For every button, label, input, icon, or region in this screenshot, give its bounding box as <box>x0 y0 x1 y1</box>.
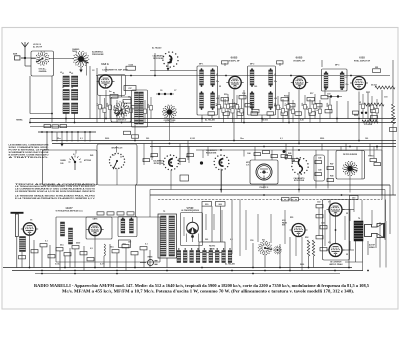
svg-text:5000: 5000 <box>76 243 80 245</box>
wire bottom v8 <box>69 248 71 268</box>
S2 arrow to ground <box>79 67 82 73</box>
wire mid m11 <box>187 141 189 161</box>
wire vertical v20 <box>324 85 326 95</box>
mid component box b14 <box>327 179 334 182</box>
bus y132 <box>38 131 96 133</box>
svg-text:C2: C2 <box>120 157 122 159</box>
svg-text:S11: S11 <box>262 240 265 242</box>
cap C33 <box>316 236 323 239</box>
value label m29 <box>230 239 233 241</box>
junction dot right <box>376 146 378 151</box>
svg-text:LA TRASFREQUENZA: LA TRASFREQUENZA <box>181 209 200 212</box>
wire bottom v36 <box>381 150 383 195</box>
wire bottom v33 <box>362 241 364 263</box>
resistor R11 volume pot <box>362 103 384 123</box>
svg-text:50.000: 50.000 <box>225 99 227 105</box>
svg-text:C40: C40 <box>60 162 63 165</box>
capacitor/resistor dropper d9 <box>216 95 221 119</box>
capacitor/resistor dropper d2 <box>107 96 112 119</box>
value label t23 <box>140 102 143 104</box>
value label m7 <box>320 138 324 140</box>
wire bottom v9 <box>83 246 85 271</box>
tiny note above S1 <box>33 43 43 48</box>
svg-text:V5: V5 <box>30 220 32 222</box>
volume box <box>119 240 131 248</box>
wire vertical v17 <box>321 60 323 67</box>
svg-text:100: 100 <box>128 242 131 244</box>
svg-text:AL TELAIO: AL TELAIO <box>205 119 215 122</box>
value label t28 <box>262 120 268 122</box>
tono label <box>368 156 374 158</box>
wire bottom v19 <box>149 250 151 268</box>
svg-text:C1: C1 <box>97 78 99 80</box>
bus mid 3 <box>150 146 396 148</box>
dial drop wires <box>171 147 222 193</box>
V1 grid cap wire <box>105 67 107 73</box>
wave-change selector S4 meter <box>60 154 92 170</box>
wire vertical v5 <box>261 115 263 123</box>
ground arrow x62 <box>60 142 63 147</box>
small box row 1 <box>97 212 104 215</box>
svg-text:AL TELAIO: AL TELAIO <box>225 263 235 266</box>
T4 box <box>132 90 148 127</box>
left-bottom C24 <box>122 245 129 248</box>
svg-text:FILTRO RUMORI: FILTRO RUMORI <box>343 154 358 156</box>
S6 label <box>117 119 127 122</box>
svg-text:INV.: INV. <box>282 225 286 227</box>
winding L21 between tubes <box>61 222 65 236</box>
wire mid m31 <box>349 175 351 193</box>
svg-text:L7: L7 <box>216 74 218 76</box>
tube V7 output <box>327 203 345 216</box>
value label t4 <box>97 78 99 80</box>
svg-text:300: 300 <box>220 106 222 109</box>
resistor R13 <box>373 67 381 72</box>
value label m15 <box>318 157 321 160</box>
value label m11 <box>150 156 153 159</box>
svg-text:POT.: POT. <box>366 92 371 94</box>
value label m4 <box>190 138 195 140</box>
resistor R6 <box>229 104 237 107</box>
calibrato dial S8a <box>163 154 179 170</box>
capacitor C5 <box>115 111 122 114</box>
tube V4 6B8 detector <box>350 77 368 90</box>
svg-text:0,1: 0,1 <box>216 103 218 106</box>
value label t26 <box>174 90 176 92</box>
svg-text:250: 250 <box>302 103 304 106</box>
mid component box b11 <box>315 161 322 164</box>
svg-text:RETE: RETE <box>148 257 154 259</box>
svg-text:0,1: 0,1 <box>230 239 233 241</box>
S1 label <box>39 69 47 73</box>
svg-text:100: 100 <box>365 138 368 140</box>
capacitor/resistor dropper d19 <box>302 95 307 119</box>
svg-text:0,1: 0,1 <box>80 138 83 140</box>
capacitor C13 <box>371 109 378 112</box>
svg-text:0,25: 0,25 <box>360 101 362 105</box>
value label t3 <box>71 87 73 89</box>
capacitor C15 <box>353 111 368 114</box>
wire bottom v21 <box>201 206 203 242</box>
svg-text:27n: 27n <box>346 84 349 86</box>
wire bottom v25 <box>252 243 254 268</box>
left-bottom C22 <box>64 253 71 256</box>
band switch S1 <box>35 51 49 65</box>
wire mid m26 <box>345 144 347 151</box>
svg-text:5m: 5m <box>109 91 112 93</box>
wire vertical v1 <box>121 76 123 98</box>
svg-text:125: 125 <box>340 89 343 91</box>
small box row 4 <box>127 212 134 215</box>
wire S2 drop <box>86 62 88 76</box>
capacitor/resistor dropper d21 <box>312 94 317 119</box>
magic eye unit box <box>181 213 203 246</box>
svg-text:25m: 25m <box>57 138 61 140</box>
cap C32 <box>320 226 327 229</box>
IF transformer T1 <box>197 66 220 115</box>
capacitor C10 <box>288 104 295 107</box>
box 250 <box>202 202 212 207</box>
wire mid m29 <box>369 144 371 157</box>
value label t16 <box>371 85 377 87</box>
value label m20 <box>45 241 48 243</box>
V6 label <box>93 218 99 221</box>
value label m33 <box>305 237 308 239</box>
svg-text:L5: L5 <box>62 87 64 89</box>
resistor R3 <box>123 100 131 104</box>
value label m35 <box>321 222 325 225</box>
V11 label block <box>282 219 288 227</box>
wire mid m23 <box>321 144 323 151</box>
tube V6 second triode <box>86 223 103 235</box>
svg-text:C6: C6 <box>160 90 162 92</box>
svg-text:L7: L7 <box>346 77 348 79</box>
svg-text:1 M: 1 M <box>229 106 231 110</box>
noise filter box <box>336 151 365 180</box>
transformer base box 2 <box>132 135 139 138</box>
value label m40 <box>225 263 235 266</box>
svg-text:250: 250 <box>352 198 355 200</box>
value label t6 <box>199 64 203 66</box>
output transformer T6 <box>354 221 363 241</box>
capacitor C11 <box>315 104 322 107</box>
value label m27 <box>163 211 165 213</box>
tube V1 label <box>101 62 129 72</box>
wire bottom v31 <box>348 200 350 268</box>
svg-text:AMPLIF. FINALI: AMPLIF. FINALI <box>329 263 343 266</box>
capacitor/resistor dropper d26 <box>374 99 379 123</box>
capacitor C12 <box>325 110 332 113</box>
loudspeaker <box>365 223 385 238</box>
value label t14 <box>366 92 371 94</box>
value label t12 <box>310 93 313 95</box>
tube V5 label <box>56 207 83 213</box>
svg-text:T6: T6 <box>358 218 360 220</box>
alimentaz label <box>92 51 104 56</box>
wire bottom v29 <box>308 256 310 268</box>
box right of S9 <box>314 155 325 181</box>
tiny label al telaio <box>152 47 162 50</box>
svg-text:50m: 50m <box>101 105 103 109</box>
svg-text:MF 1: MF 1 <box>199 64 203 66</box>
svg-text:L'ANODICO: L'ANODICO <box>117 119 127 122</box>
capacitor/resistor dropper d1 <box>101 98 106 123</box>
tube V3 6AB5 IF amp <box>291 76 308 88</box>
svg-text:VII AMPL. MF: VII AMPL. MF <box>228 60 240 63</box>
svg-text:0,5 M: 0,5 M <box>190 138 195 140</box>
calibration trimmer dial S3 <box>162 51 178 67</box>
value label t7 <box>250 64 254 66</box>
wire bottom v5 <box>33 240 35 268</box>
left-bottom C23 <box>80 252 87 255</box>
caps above V9 <box>263 150 288 158</box>
value label m32 <box>290 217 293 219</box>
driver box a <box>282 198 290 201</box>
svg-text:R15: R15 <box>224 94 227 96</box>
svg-text:R49: R49 <box>330 175 333 178</box>
capacitor/resistor dropper d8 <box>148 97 153 119</box>
value label m13 <box>247 152 251 155</box>
legend text block <box>15 183 96 200</box>
value label m31 <box>262 240 265 242</box>
wire mid m4 <box>116 169 118 186</box>
value label t13 <box>327 94 330 96</box>
wire bottom extra e1 <box>205 214 207 230</box>
cap box above T2 <box>277 61 284 64</box>
wire bottom v11 <box>21 252 23 268</box>
svg-text:0,1: 0,1 <box>140 102 143 104</box>
capacitor C9 <box>252 110 259 113</box>
resistor R2 <box>110 93 118 99</box>
wire mid m9 <box>169 119 171 141</box>
oscillator coil bank L1-L6 <box>62 73 78 114</box>
value label m19 <box>30 220 32 222</box>
value label m23 <box>90 248 93 250</box>
bus bottom 1 <box>3 267 352 269</box>
wire mid m30 <box>373 147 375 159</box>
left-bottom R20 <box>31 250 38 253</box>
value label m28 <box>205 239 208 241</box>
wire vertical v18 <box>243 90 245 123</box>
bus low 4 dashed <box>158 199 382 201</box>
svg-text:GRUPPO A.F.: GRUPPO A.F. <box>111 147 123 150</box>
svg-text:G.T.: G.T. <box>246 165 250 167</box>
capacitor/resistor dropper d25 <box>369 96 374 119</box>
svg-text:5000: 5000 <box>275 103 277 107</box>
tube V9 label <box>246 162 250 167</box>
svg-text:5 T: 5 T <box>113 155 115 157</box>
loop antenna bar <box>11 213 24 268</box>
wire bottom v28 <box>289 237 291 271</box>
value label t0 <box>60 72 62 74</box>
mid component box b16 <box>374 163 381 166</box>
wire bottom extra e13 <box>329 200 331 244</box>
junction blob <box>200 161 203 164</box>
wire mid m16 <box>254 147 256 161</box>
trimmer dot row <box>156 93 174 95</box>
svg-text:0,1: 0,1 <box>145 244 148 246</box>
value label t1 <box>69 71 72 74</box>
left-bottom R23 <box>72 246 79 249</box>
S9 label <box>294 177 305 182</box>
value label t21 <box>109 91 112 93</box>
band switch S1 section box <box>31 51 54 76</box>
wire vertical v7 <box>298 90 300 144</box>
power transformer T5 <box>158 214 177 258</box>
wire bottom extra e5 <box>245 210 247 250</box>
svg-text:C16: C16 <box>242 93 245 95</box>
value label m21 <box>60 245 64 247</box>
value label m10 <box>90 154 93 157</box>
value label m36 <box>346 213 348 215</box>
value label m8 <box>365 138 368 140</box>
value label m25 <box>128 242 131 244</box>
wire mid m22 <box>315 150 317 189</box>
IF transformer T3 <box>322 69 349 91</box>
svg-text:C2: C2 <box>92 70 94 72</box>
wire bottom extra e9 <box>295 237 297 256</box>
svg-text:0,02: 0,02 <box>307 106 309 110</box>
svg-text:TENS.: TENS. <box>72 51 78 53</box>
wire V7 V8 connect <box>335 217 337 244</box>
S7 label <box>164 120 177 124</box>
value label m41 <box>100 264 105 266</box>
cap C31 <box>316 215 323 218</box>
wire bottom v14 <box>143 250 145 268</box>
S2 label <box>72 48 80 53</box>
component box above osc <box>124 86 136 91</box>
mid component box b7 <box>254 153 261 156</box>
resistor R31 vertical <box>312 240 314 256</box>
svg-text:RIVEL. AMPLIF. BF: RIVEL. AMPLIF. BF <box>354 60 371 63</box>
capacitor/resistor dropper d0 <box>97 95 102 119</box>
tube V5 12AF7 <box>21 223 38 235</box>
wire mid m6 <box>143 144 145 166</box>
svg-text:27n: 27n <box>216 81 219 83</box>
svg-text:L7: L7 <box>274 74 276 76</box>
svg-text:0,5: 0,5 <box>285 103 287 106</box>
IF transformer T2 <box>248 66 278 115</box>
left-bottom R22 <box>56 248 63 251</box>
wire vertical v13 <box>392 124 394 195</box>
oscillator transformer T4 <box>135 92 144 124</box>
bus bottom 2 <box>12 270 369 272</box>
padder dial S7 <box>162 105 177 120</box>
capacitor/resistor dropper d20 <box>307 99 312 123</box>
mid component box b9 <box>285 156 292 159</box>
oscillator unit box <box>111 97 131 122</box>
wire bottom extra e8 <box>284 210 286 244</box>
svg-text:25: 25 <box>346 213 348 215</box>
wire bottom v27 <box>279 244 281 268</box>
svg-text:10.000: 10.000 <box>290 105 292 111</box>
value label m5 <box>240 138 244 140</box>
tube V9 rectifier <box>256 164 272 189</box>
svg-text:50.000: 50.000 <box>371 85 377 87</box>
svg-text:DI GAMMA: DI GAMMA <box>165 121 174 124</box>
tube V1 6A8G converter <box>97 75 115 88</box>
resistor R9 <box>307 98 315 101</box>
svg-text:L2: L2 <box>71 73 73 75</box>
svg-text:CAMB.: CAMB. <box>60 159 66 162</box>
value label t27 <box>205 119 215 122</box>
wire vertical v9 <box>347 101 349 119</box>
svg-text:L3: L3 <box>60 72 62 74</box>
value label t2 <box>62 87 64 89</box>
wire bottom v35 <box>375 238 377 248</box>
svg-text:300: 300 <box>374 107 376 110</box>
wire bottom v3 <box>64 256 66 268</box>
tube V2 6AB5 IF amp <box>226 76 243 88</box>
svg-text:0,5 A: 0,5 A <box>55 263 60 266</box>
wire mid m15 <box>243 150 245 157</box>
svg-text:R47: R47 <box>330 163 333 166</box>
wire bottom extra e3 <box>221 210 223 242</box>
value label m16 <box>330 163 333 166</box>
svg-text:L10: L10 <box>216 98 219 100</box>
bottom section box top <box>136 185 391 234</box>
svg-text:VIII AMPL. MF: VIII AMPL. MF <box>293 60 306 63</box>
left-bottom C25 <box>140 247 147 250</box>
wire mid m10 <box>179 144 181 166</box>
wire coil L2 down <box>74 114 76 123</box>
value label m30 <box>250 240 253 242</box>
choke row dots <box>178 248 231 249</box>
calibrato dial S8b label <box>206 149 217 154</box>
wire vertical v10 <box>358 92 360 141</box>
value label t11 <box>284 96 287 98</box>
wire bottom v0 <box>29 236 31 268</box>
svg-text:C7: C7 <box>174 90 176 92</box>
wire bottom v23 <box>220 206 222 242</box>
capacitor/resistor dropper d6 <box>135 96 140 119</box>
wire bottom extra e16 <box>361 200 363 221</box>
right edge resistor <box>392 104 395 124</box>
speaker label <box>369 244 376 249</box>
caption line 1 <box>34 284 369 288</box>
svg-text:C42: C42 <box>150 156 153 159</box>
svg-text:100: 100 <box>254 86 257 88</box>
wire mid m3 <box>116 146 118 153</box>
left-bottom coil L10 <box>104 244 105 256</box>
svg-text:5000: 5000 <box>354 115 358 117</box>
choke row <box>177 251 232 263</box>
svg-text:6AB5: 6AB5 <box>231 56 238 60</box>
wire bottom v15 <box>94 237 96 268</box>
mains voltage selector S2 <box>73 51 90 67</box>
svg-text:VOLUME: VOLUME <box>364 124 373 126</box>
svg-text:0,25: 0,25 <box>300 120 304 122</box>
value label t8 <box>335 65 339 67</box>
wire bottom extra e18 <box>379 222 381 268</box>
wire bottom extra e19 <box>385 221 387 268</box>
wire S1 left entry <box>31 58 35 60</box>
bus low 3 <box>150 194 396 196</box>
box 260 <box>216 202 226 207</box>
wire mid m19 <box>285 144 287 161</box>
svg-text:C46: C46 <box>318 157 321 160</box>
value label m6 <box>280 138 283 140</box>
svg-text:AL GR. RF: AL GR. RF <box>33 46 43 49</box>
svg-text:RICEZIONE: RICEZIONE <box>206 152 217 154</box>
svg-text:0,1: 0,1 <box>280 107 282 110</box>
wire bottom v17 <box>116 253 118 268</box>
capacitor/resistor dropper d15 <box>275 96 280 119</box>
can L30 <box>118 217 137 237</box>
value label m3 <box>146 138 149 140</box>
wire vertical v21 <box>367 92 369 119</box>
svg-text:MF 3: MF 3 <box>335 65 339 67</box>
